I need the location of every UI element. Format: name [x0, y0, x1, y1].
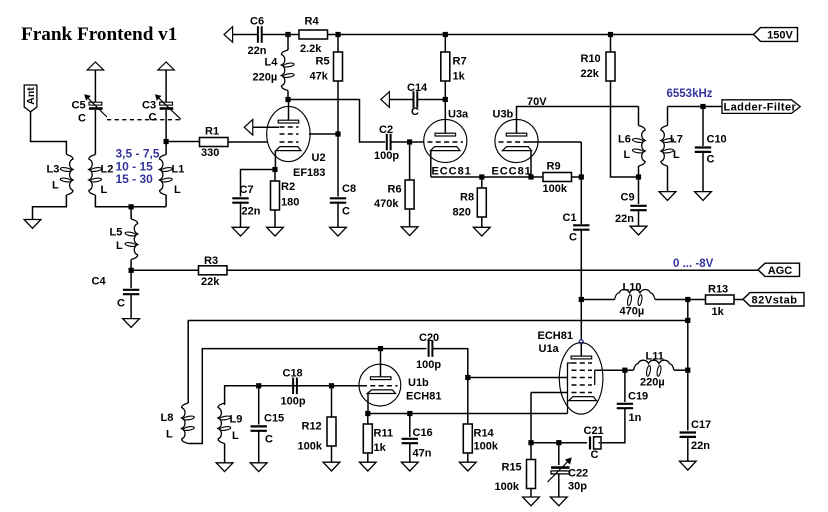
svg-text:C: C — [411, 106, 419, 118]
inductor L11 — [634, 360, 675, 370]
cathode U1a — [569, 397, 597, 401]
svg-text:R13: R13 — [708, 284, 728, 296]
wire R7 to node G — [444, 81, 446, 97]
wire node C to R7 — [444, 37, 446, 52]
wire node F to C8 — [337, 136, 339, 197]
ground (C9) — [638, 210, 640, 227]
node F (R5/screen/C8) — [335, 131, 340, 136]
ground (C7) — [240, 203, 242, 228]
grid g row4 U1a — [572, 384, 593, 386]
wire node Y to R12 — [331, 388, 333, 417]
svg-text:C4: C4 — [92, 276, 107, 288]
svg-text:U3b: U3b — [493, 109, 514, 121]
svg-text:EF183: EF183 — [293, 167, 325, 179]
anode lead U1b — [380, 351, 382, 377]
inductor L7 — [661, 126, 668, 167]
tube U1b envelope — [359, 364, 401, 406]
svg-text:C: C — [117, 298, 125, 310]
wire osc grid entry (row5) — [531, 392, 568, 394]
flag Ant — [24, 85, 37, 112]
wire L11 to node U — [674, 369, 688, 371]
wire R5 to node F — [337, 81, 339, 134]
wire R13 to flag — [734, 299, 743, 301]
capacitor C15 — [251, 425, 267, 427]
svg-text:3,5 - 7,5: 3,5 - 7,5 — [116, 147, 160, 161]
anode plate U3b — [506, 133, 527, 136]
node U (L11/C17) — [685, 368, 690, 373]
svg-text:C10: C10 — [707, 134, 727, 146]
anode lead U3a — [444, 102, 446, 133]
cathode lead U1b — [367, 394, 369, 412]
resistor R5 — [334, 52, 343, 81]
svg-text:C: C — [78, 113, 86, 125]
svg-text:C8: C8 — [342, 183, 356, 195]
svg-text:15 - 30: 15 - 30 — [116, 172, 154, 186]
grid g row5 U1a — [572, 392, 593, 394]
svg-text:U1a: U1a — [539, 343, 560, 355]
svg-text:82Vstab: 82Vstab — [752, 294, 798, 306]
resistor R2 — [271, 181, 280, 210]
svg-text:22n: 22n — [691, 440, 710, 452]
cathode lead U2 — [274, 151, 276, 167]
wire node K to R3 — [134, 269, 199, 271]
wire node Z to R11 — [367, 416, 369, 424]
capacitor C6 — [257, 26, 259, 43]
svg-text:C: C — [707, 154, 715, 166]
svg-text:100k: 100k — [298, 441, 323, 453]
cathode U2 — [276, 147, 301, 151]
node O (U3b cathode) — [528, 174, 533, 179]
flag 150V — [754, 28, 798, 42]
svg-text:U3a: U3a — [448, 109, 469, 121]
wire node Q to U1a anode — [580, 302, 582, 340]
node T (osc feedback line) — [685, 318, 690, 323]
wire node J to L1 — [165, 144, 167, 155]
wire L10 to node S — [655, 299, 688, 301]
svg-text:C16: C16 — [413, 427, 433, 439]
svg-text:C: C — [265, 434, 273, 446]
svg-text:R15: R15 — [502, 462, 522, 474]
svg-text:L: L — [624, 149, 631, 161]
node M (C2/R6/U3a grid) — [407, 139, 412, 144]
svg-text:L5: L5 — [110, 227, 123, 239]
anode plate U2 — [278, 120, 299, 123]
svg-text:C1: C1 — [563, 212, 577, 224]
svg-text:ECC81: ECC81 — [432, 166, 472, 178]
flag 82Vstab — [743, 293, 804, 306]
wire C20 to node W — [432, 349, 467, 375]
svg-text:22n: 22n — [615, 213, 634, 225]
resistor R3 — [199, 266, 228, 275]
capacitor C21 — [589, 437, 591, 450]
resistor R12 — [327, 417, 336, 446]
capacitor C9 — [630, 205, 646, 207]
svg-text:R9: R9 — [547, 161, 561, 173]
node D (rail/R10) — [608, 32, 613, 37]
wire L7 top — [667, 107, 669, 126]
node X (C15) — [256, 383, 261, 388]
svg-text:C7: C7 — [240, 184, 254, 196]
grid bracket right U1a (g2+g4) — [594, 370, 596, 385]
svg-text:Frank Frontend v1: Frank Frontend v1 — [21, 24, 177, 45]
svg-text:L1: L1 — [172, 164, 185, 176]
node Z (U1b cathode/R11) — [365, 411, 370, 416]
terminal arrow above C5 — [87, 62, 103, 70]
svg-text:100k: 100k — [495, 481, 520, 493]
tube U3b envelope — [495, 119, 538, 162]
resistor R7 — [441, 52, 450, 81]
wire node K to C4 — [130, 273, 132, 288]
wire node R to flag — [706, 106, 723, 108]
wire L1 to bottom wire — [165, 195, 167, 207]
resistor R6 — [405, 180, 414, 209]
node AB (g2g4/L11/C19) — [622, 368, 627, 373]
ground (R8) — [481, 217, 483, 228]
svg-text:C: C — [569, 232, 577, 244]
tube U2 envelope — [267, 106, 310, 161]
gang dashed line C5-C3 — [107, 119, 182, 121]
svg-text:R14: R14 — [474, 428, 495, 440]
resistor R15 — [527, 460, 536, 489]
anode plate U1b — [370, 377, 391, 380]
svg-text:R12: R12 — [302, 421, 322, 433]
inductor L10 — [615, 289, 656, 299]
svg-text:470k: 470k — [374, 198, 399, 210]
svg-text:U2: U2 — [312, 152, 326, 164]
ground (L9) — [216, 463, 233, 472]
svg-text:C3: C3 — [142, 100, 156, 112]
svg-text:6553kHz: 6553kHz — [667, 88, 713, 100]
node AA (C16) — [407, 411, 412, 416]
ground (R6) — [409, 209, 411, 228]
ground (R14) — [467, 453, 469, 463]
wire R10 down to node H — [611, 81, 639, 177]
resistor R10 — [606, 52, 615, 81]
svg-text:C15: C15 — [264, 413, 284, 425]
resistor R1 — [200, 138, 229, 147]
variable capacitor C22 — [551, 466, 570, 469]
svg-text:L: L — [52, 180, 59, 192]
wire R3 to AGC (0...-8V line) — [227, 269, 758, 271]
svg-text:R10: R10 — [581, 53, 601, 65]
grid g3 row U2 — [280, 126, 299, 128]
svg-text:C: C — [591, 449, 599, 461]
wire node N to R8 — [481, 180, 483, 189]
wire R9 to node P — [572, 176, 582, 178]
ground (C22) — [558, 474, 560, 498]
svg-text:R2: R2 — [281, 181, 295, 193]
capacitor C1 — [573, 224, 589, 226]
svg-text:0 ... -8V: 0 ... -8V — [673, 258, 714, 270]
svg-text:L: L — [673, 149, 680, 161]
wire node W to U1a grid — [470, 377, 567, 379]
svg-text:R6: R6 — [388, 184, 402, 196]
inductor L8 — [182, 403, 189, 444]
wire Ant to L3 — [31, 112, 67, 155]
svg-text:70V: 70V — [527, 96, 547, 108]
svg-text:L: L — [174, 184, 181, 196]
wire L9 to ground — [224, 444, 226, 464]
grid row U1b — [362, 385, 398, 387]
node N (cathode/R8) — [479, 174, 484, 179]
svg-text:100p: 100p — [416, 359, 441, 371]
svg-text:C20: C20 — [419, 332, 439, 344]
wire node I to L5 — [130, 209, 132, 219]
svg-text:ECH81: ECH81 — [406, 391, 441, 403]
svg-text:R1: R1 — [205, 126, 219, 138]
svg-text:R3: R3 — [204, 255, 218, 267]
wire arrow to C5 — [94, 70, 96, 102]
capacitor C18 — [292, 378, 294, 395]
svg-text:C: C — [149, 112, 157, 124]
wire node W down to R14 — [467, 380, 469, 424]
wire C19 to osc bottom line — [600, 408, 625, 443]
svg-text:Ladder-Filter: Ladder-Filter — [724, 101, 797, 113]
variable capacitor C5 — [89, 102, 102, 105]
capacitor C20 — [428, 340, 430, 357]
svg-text:L6: L6 — [618, 134, 631, 146]
wire node AC to R15 — [530, 445, 532, 460]
capacitor C4 — [123, 289, 139, 291]
wire C15 stem — [258, 388, 260, 425]
wire node AD to C22 — [558, 445, 560, 465]
wire cathode line to U1a — [368, 413, 568, 415]
wire node R to C10 — [702, 109, 704, 146]
svg-text:820: 820 — [453, 207, 471, 219]
svg-text:R11: R11 — [374, 428, 394, 440]
wire node V to C20 — [383, 348, 427, 350]
resistor R8 — [477, 188, 486, 217]
svg-text:ECH81: ECH81 — [538, 330, 573, 342]
grid bracket left U1a — [568, 363, 573, 414]
wire 70V to L6 — [638, 107, 640, 126]
anode plate U3a — [435, 133, 456, 136]
svg-text:C9: C9 — [621, 192, 635, 204]
wire row5 corner down to node AC — [530, 393, 532, 441]
node AC (R15/C21 line) — [528, 440, 533, 445]
svg-text:L: L — [116, 240, 123, 252]
inductor L4 — [281, 50, 288, 91]
svg-text:100p: 100p — [281, 396, 306, 408]
wire C5 to L2 — [94, 110, 96, 155]
svg-text:AGC: AGC — [768, 265, 793, 277]
svg-text:L2: L2 — [101, 164, 114, 176]
wire node U to C17 — [687, 373, 689, 431]
svg-text:L4: L4 — [265, 57, 279, 69]
resistor R9 — [543, 173, 572, 182]
svg-text:30p: 30p — [568, 481, 587, 493]
inductor L2 — [89, 155, 96, 196]
svg-text:C21: C21 — [584, 425, 604, 437]
svg-text:L: L — [232, 430, 239, 442]
svg-text:22k: 22k — [201, 276, 220, 288]
svg-text:L8: L8 — [161, 412, 174, 424]
wire C6 to node A — [262, 34, 299, 36]
node A (C6/R4/L4) — [285, 32, 290, 37]
wire cathode to R2 — [274, 172, 276, 181]
wire C14 to node G — [417, 99, 445, 101]
capacitor C7 — [232, 197, 248, 199]
screen wire U2 to node F — [309, 133, 336, 135]
ground (C8) — [337, 203, 339, 228]
capacitor C2 — [386, 134, 388, 151]
anode lead U1a top — [580, 344, 582, 356]
wire node J to R1 — [169, 141, 200, 143]
ground (antenna) — [24, 220, 41, 229]
svg-text:C14: C14 — [407, 82, 428, 94]
svg-text:L: L — [101, 184, 108, 196]
capacitor C19 — [617, 403, 633, 405]
svg-text:L7: L7 — [670, 134, 683, 146]
inductor L9 — [218, 403, 225, 444]
svg-text:L9: L9 — [230, 414, 243, 426]
ground (C15) — [258, 431, 260, 464]
wire R4 to 150V rail — [328, 34, 754, 36]
node J (C3/L1/R1) — [164, 139, 169, 144]
ground (C4) — [130, 294, 132, 319]
resistor R11 — [363, 424, 372, 453]
svg-text:100k: 100k — [543, 183, 568, 195]
inductor L6 — [639, 126, 646, 167]
svg-text:1k: 1k — [374, 442, 387, 454]
svg-text:330: 330 — [201, 147, 219, 159]
ground (C16) — [409, 443, 411, 463]
terminal arrow (U2 g3) — [244, 120, 253, 136]
port dot (U1a anode, blue) — [579, 340, 583, 344]
svg-text:C5: C5 — [72, 100, 86, 112]
ground (R12) — [331, 446, 333, 463]
svg-text:1k: 1k — [712, 306, 725, 318]
node C (rail/R7) — [443, 32, 448, 37]
svg-text:C18: C18 — [283, 368, 303, 380]
cathode U3b — [503, 147, 532, 151]
node P (R9/U3b grid/C1) — [579, 174, 584, 179]
svg-text:470µ: 470µ — [620, 306, 645, 318]
variable capacitor C3 — [160, 102, 173, 105]
wire node T down to L11 node — [687, 323, 689, 370]
wire L6 to node H — [638, 166, 640, 177]
anode lead U3b to 70V wire — [517, 107, 639, 134]
grid g row1 U1a — [572, 362, 593, 364]
node I (L2/L1/L5) — [129, 204, 134, 209]
svg-text:R7: R7 — [453, 56, 467, 68]
anode plate U1a — [571, 356, 592, 359]
flag AGC — [758, 263, 800, 276]
node Q (C1/L10/U1a anode) — [579, 297, 584, 302]
wire arrow to C3 — [165, 70, 167, 102]
capacitor C14 — [413, 91, 415, 108]
capacitor C8 — [330, 197, 346, 199]
inductor L5 — [131, 219, 138, 260]
wire C3 to node J — [165, 110, 167, 139]
node R (L7/C10/filter) — [700, 104, 705, 109]
svg-text:ECC81: ECC81 — [492, 166, 532, 178]
anode lead U2 — [288, 102, 290, 120]
wire node AA to C16 — [409, 416, 411, 437]
node Y (C18/R12/U1b grid) — [329, 383, 334, 388]
cathode U1b — [367, 390, 395, 394]
terminal arrow (C14) — [381, 92, 390, 108]
resistor R14 — [463, 424, 472, 453]
terminal arrow (input to C6) — [224, 27, 233, 43]
svg-text:R4: R4 — [305, 16, 320, 28]
node G (C14/R7/U3a anode) — [443, 97, 448, 102]
svg-text:C: C — [342, 206, 350, 218]
svg-text:L10: L10 — [623, 282, 642, 294]
wire cathode to C7 — [241, 170, 273, 197]
wire C18 to node Y — [297, 385, 332, 387]
svg-text:180: 180 — [281, 197, 299, 209]
svg-text:U1b: U1b — [408, 377, 429, 389]
svg-text:R8: R8 — [460, 192, 474, 204]
wire R1 to U2 grid — [228, 141, 268, 143]
svg-text:L: L — [166, 429, 173, 441]
wire node AB to L11 — [627, 369, 634, 371]
node W (C20/U1a g3/R14) — [465, 375, 470, 380]
wire L8 bottom to line2 — [188, 349, 380, 444]
flag Ladder-Filter — [722, 100, 800, 114]
ground (R11) — [367, 453, 369, 463]
wire node AC to C21 — [534, 442, 588, 444]
node L (U2 cathode) — [272, 167, 277, 172]
svg-text:100p: 100p — [374, 150, 399, 162]
wire U3b grid jog down — [580, 142, 582, 175]
wire node P to C1 — [580, 180, 582, 225]
grid wire U3b to R9 node — [526, 141, 582, 143]
svg-text:C22: C22 — [568, 468, 588, 480]
wire U3 cathode line — [431, 176, 543, 178]
wire C2 to node M — [391, 141, 410, 143]
wire node M to R6 — [409, 145, 411, 181]
capacitor C16 — [402, 438, 418, 440]
wire L5 to node K — [130, 260, 132, 269]
resistor R13 — [706, 295, 735, 304]
svg-text:L11: L11 — [646, 351, 664, 363]
ground (R15) — [530, 489, 532, 498]
capacitor C17 — [680, 431, 696, 433]
wire node H to C9 — [638, 180, 640, 205]
wire node AB to C19 — [624, 373, 626, 402]
wire C1 down to node Q — [580, 230, 582, 297]
svg-text:1n: 1n — [629, 412, 642, 424]
node AD (C22) — [556, 440, 561, 445]
svg-text:Ant: Ant — [25, 87, 37, 105]
wire node D to R10 — [610, 37, 612, 52]
node K (L5/R3/C4) — [129, 268, 134, 273]
svg-text:R5: R5 — [316, 56, 330, 68]
inductor L3 — [66, 155, 73, 196]
cathode U3a — [431, 147, 461, 151]
svg-text:100k: 100k — [474, 441, 499, 453]
wire node A to L4 — [287, 37, 289, 50]
ground (R2) — [274, 210, 276, 228]
svg-text:1k: 1k — [453, 71, 466, 83]
tube U1a envelope — [559, 343, 603, 414]
capacitor C10 — [695, 146, 711, 148]
wire node M to U3a grid — [412, 141, 424, 143]
svg-text:47k: 47k — [310, 71, 329, 83]
wire C21 to C19 line — [599, 442, 601, 444]
svg-text:22n: 22n — [242, 206, 261, 218]
wire L9 to C18 line — [225, 386, 330, 405]
inductor L1 — [160, 155, 167, 196]
wire L3 to ground — [33, 195, 67, 220]
wire L7 to ground — [667, 166, 669, 192]
svg-text:C6: C6 — [250, 16, 264, 28]
ground (C10) — [702, 152, 704, 192]
svg-text:220µ: 220µ — [640, 377, 665, 389]
svg-text:220µ: 220µ — [253, 72, 278, 84]
